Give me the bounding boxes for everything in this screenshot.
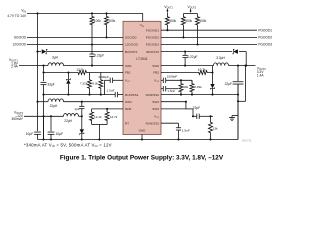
- svg-text:GND: GND: [139, 128, 147, 132]
- diode D4 boost2: [161, 49, 247, 66]
- svg-text:100k: 100k: [185, 19, 192, 23]
- svg-text:PGOOD3: PGOOD3: [258, 43, 272, 47]
- capacitor C11 1.5nF VC2: [161, 86, 178, 93]
- svg-text:0.22µF: 0.22µF: [188, 55, 198, 59]
- capacitor C10 1000pF VC2: [161, 75, 192, 83]
- svg-text:*340mA AT VIN = 5V, 500mA AT V: *340mA AT VIN = 5V, 500mA AT VIN = 12V: [24, 142, 112, 148]
- svg-text:22µF: 22µF: [225, 82, 232, 86]
- svg-text:RT: RT: [125, 121, 129, 125]
- svg-text:22µH: 22µH: [64, 119, 72, 123]
- svg-text:3300pF: 3300pF: [98, 75, 109, 79]
- wire VOUT1: [19, 65, 48, 67]
- wire FB2: [161, 72, 197, 74]
- resistor R12 10k VC2: [179, 79, 189, 95]
- svg-text:FB2: FB2: [153, 71, 159, 75]
- svg-text:SGOOD: SGOOD: [125, 36, 137, 40]
- node VOUT1 output label: [9, 58, 19, 69]
- wire IC GND pin: [141, 135, 143, 141]
- wire 12GOOD: [12, 43, 123, 47]
- wire NFB: [92, 108, 123, 110]
- capacitor C5 3300pF VC1: [98, 75, 123, 95]
- svg-text:2.4A: 2.4A: [11, 65, 19, 69]
- svg-text:PGOOD1: PGOOD1: [146, 28, 160, 32]
- svg-text:1.4A: 1.4A: [257, 73, 265, 77]
- svg-text:10µF: 10µF: [56, 132, 63, 136]
- caption: [60, 155, 224, 162]
- capacitor C8 0.22uF boost2: [183, 51, 198, 67]
- wire SGOOD: [14, 36, 123, 40]
- svg-text:SW3: SW3: [152, 107, 159, 111]
- svg-text:12GOOD: 12GOOD: [125, 43, 139, 47]
- node gnd junctions: [42, 138, 52, 140]
- wire FB2 divider top: [212, 66, 214, 73]
- svg-text:13.7k: 13.7k: [110, 115, 118, 119]
- diode D1 boost1: [36, 49, 123, 54]
- svg-text:RUN/SS1: RUN/SS1: [125, 93, 139, 97]
- svg-text:RUN/SS3: RUN/SS3: [146, 121, 160, 125]
- resistor R2 100k 12GOOD pullup: [90, 12, 101, 45]
- resistor R7 13.7k NFB: [105, 109, 118, 125]
- capacitor C13 1.5nF RUN/SS3: [161, 123, 190, 140]
- svg-text:PGOOD1: PGOOD1: [258, 28, 272, 32]
- note footnote: [24, 142, 112, 148]
- svg-text:33µF: 33µF: [47, 83, 54, 87]
- resistor R3 13.7k FB1: [74, 68, 123, 75]
- wire ground rail: [38, 84, 239, 140]
- svg-text:100k: 100k: [169, 19, 176, 23]
- wire FB1: [42, 71, 74, 73]
- svg-text:10.7k: 10.7k: [198, 68, 206, 72]
- node VOUT2 pullup label: [183, 5, 197, 14]
- svg-text:9.3k: 9.3k: [92, 82, 98, 86]
- wire SW3 primary: [36, 101, 48, 103]
- node VOUT1 pullup label: [164, 5, 173, 13]
- resistor R4 7.32k: [80, 73, 92, 96]
- svg-text:LT1941: LT1941: [136, 57, 147, 61]
- svg-text:1.5nF: 1.5nF: [182, 128, 190, 132]
- svg-text:3.3µH: 3.3µH: [216, 56, 225, 60]
- svg-text:SW2: SW2: [152, 64, 159, 68]
- node VOUT3 output label: [11, 110, 23, 121]
- svg-text:100k: 100k: [108, 19, 115, 23]
- node VOUT2 output label: [257, 66, 267, 77]
- wire VOUT1 rail: [43, 66, 45, 82]
- diode D2 FB1 sense: [66, 71, 70, 95]
- capacitor C3 33uF output1: [41, 82, 55, 139]
- wire NFB divider gnd: [92, 125, 108, 141]
- svg-text:1941 F01: 1941 F01: [242, 140, 253, 143]
- svg-text:SW3: SW3: [125, 100, 132, 104]
- svg-text:PGOOD3: PGOOD3: [146, 43, 160, 47]
- resistor R8 100k PGOOD1 pullup: [165, 13, 176, 32]
- capacitor C2 0.22uF boost1: [89, 45, 104, 67]
- diode D5 FB2: [210, 73, 214, 96]
- svg-text:7.32k: 7.32k: [80, 82, 88, 86]
- svg-text:1.5nF: 1.5nF: [167, 89, 175, 93]
- svg-text:BOOST2: BOOST2: [146, 50, 159, 54]
- inductor L2A 22uH primary: [48, 99, 64, 108]
- wire VIN top: [27, 13, 143, 21]
- svg-text:10k: 10k: [183, 85, 188, 89]
- resistor R9 100k PGOOD2 pullup: [181, 14, 192, 39]
- wire PGOOD2: [161, 36, 272, 40]
- svg-text:13.7k: 13.7k: [76, 68, 84, 72]
- svg-text:1000pF: 1000pF: [167, 75, 178, 79]
- svg-text:RUN/SS2: RUN/SS2: [146, 93, 160, 97]
- svg-text:BOOST1: BOOST1: [125, 50, 138, 54]
- svg-text:PGOOD2: PGOOD2: [258, 36, 272, 40]
- resistor R6 12.1k NFB: [90, 109, 102, 125]
- wire RUN/SS2: [161, 94, 239, 96]
- svg-text:SGOOD: SGOOD: [14, 36, 27, 40]
- resistor R11 10.7k FB2: [197, 68, 214, 75]
- wire VOUT3: [24, 115, 64, 117]
- svg-text:12.1k: 12.1k: [94, 115, 102, 119]
- svg-text:SW1: SW1: [125, 64, 132, 68]
- svg-text:PGOOD2: PGOOD2: [146, 36, 160, 40]
- svg-text:13k: 13k: [213, 127, 218, 131]
- resistor R1 100k SGOOD pullup: [105, 12, 116, 38]
- capacitor C7 10uF output3: [48, 116, 63, 139]
- capacitor C4 1.5nF RUN/SS1: [42, 89, 123, 98]
- resistor R5 10k: [92, 73, 103, 96]
- svg-text:12GOOD: 12GOOD: [12, 43, 26, 47]
- node VIN input label: [7, 9, 27, 18]
- node VIN junction: [36, 12, 38, 14]
- wire SW3 jumper right: [161, 101, 194, 118]
- svg-text:2.49k: 2.49k: [194, 85, 202, 89]
- wire PGOOD1: [161, 28, 272, 32]
- svg-text:100k: 100k: [94, 19, 101, 23]
- inductor L1 3.3uH: [48, 55, 64, 65]
- wire VOUT1 rail crossing: [43, 116, 45, 139]
- svg-text:1µF: 1µF: [74, 107, 80, 111]
- capacitor C6 1uF coupling: [74, 101, 84, 118]
- capacitor C12 22uF coupling: [193, 106, 213, 119]
- diode D3 catch -12V: [80, 116, 84, 140]
- svg-text:FB1: FB1: [125, 71, 131, 75]
- ground right: [229, 116, 238, 121]
- resistor R13 2.49k: [190, 80, 202, 95]
- note figure number: [242, 140, 253, 143]
- svg-text:1.5nF: 1.5nF: [107, 89, 115, 93]
- wire VOUT2: [229, 65, 256, 67]
- wire VIN rail: [37, 13, 39, 131]
- wire secondary to rail: [79, 115, 82, 117]
- svg-text:0.22µF: 0.22µF: [94, 54, 104, 58]
- svg-text:22µH: 22µH: [50, 104, 58, 108]
- svg-text:10µF: 10µF: [26, 132, 33, 136]
- wire VOUT2 divider branch: [237, 66, 246, 103]
- svg-text:Figure 1. Triple Output Power: Figure 1. Triple Output Power Supply: 3.…: [60, 155, 224, 162]
- svg-text:100k: 100k: [199, 19, 206, 23]
- inductor L3 3.3uH: [214, 56, 229, 66]
- svg-text:3µH: 3µH: [52, 55, 59, 59]
- svg-text:SW3: SW3: [152, 100, 159, 104]
- wire SW2: [161, 65, 214, 67]
- wire SW1: [64, 65, 124, 67]
- node VOUT1 junction: [42, 65, 44, 67]
- capacitor C9 22uF output2: [225, 66, 244, 140]
- capacitor C1 10uF input: [26, 132, 41, 140]
- svg-text:350mA*: 350mA*: [11, 117, 23, 121]
- svg-text:4.7V TO 14V: 4.7V TO 14V: [7, 14, 27, 18]
- resistor R10 100k PGOOD3 pullup: [196, 14, 207, 46]
- wire SW3 to IC: [64, 101, 124, 103]
- wire PGOOD3: [161, 43, 272, 47]
- svg-text:NFB: NFB: [125, 107, 131, 111]
- inductor L2B 22uH secondary: [64, 114, 79, 123]
- resistor R14 13k: [209, 115, 219, 140]
- IC U1 LT1941: [123, 21, 161, 134]
- svg-text:22µF: 22µF: [193, 106, 200, 110]
